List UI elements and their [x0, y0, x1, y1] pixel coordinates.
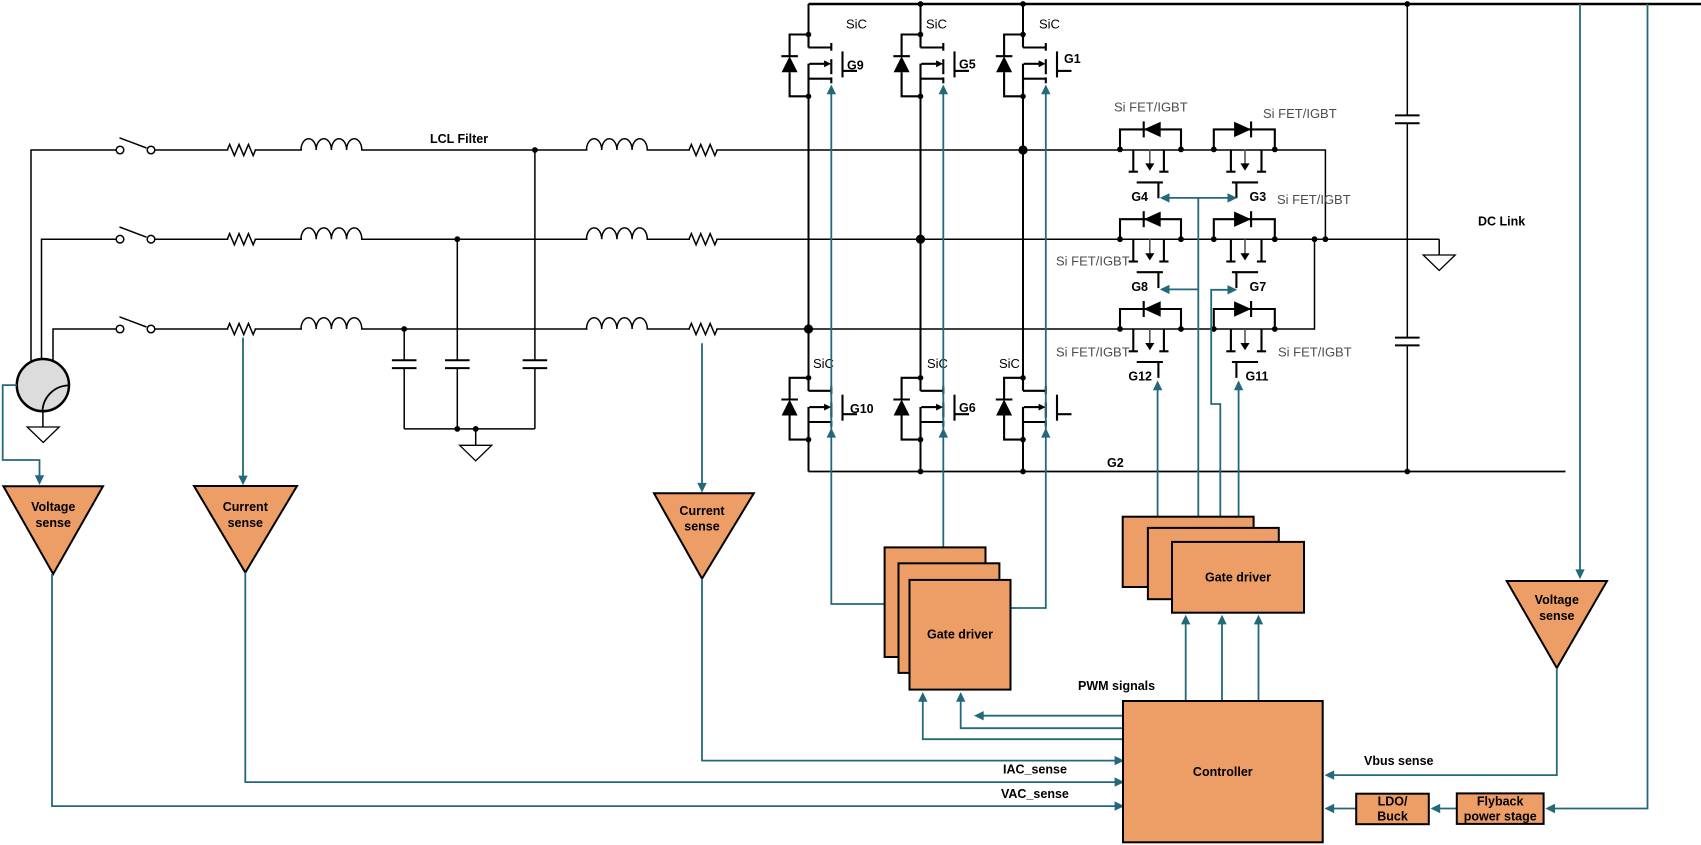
transistor pair Q12 Si FET/IGBT G11 — [1211, 301, 1278, 378]
label Si FET/IGBT row3 right — [1278, 345, 1352, 360]
wire phase B middle — [42, 239, 1440, 360]
node bottom rail junctions — [918, 469, 1411, 475]
wire PWM signals arrow teal — [974, 711, 1123, 720]
svg-text:Voltage: Voltage — [1535, 593, 1579, 607]
label DC Link — [1478, 215, 1525, 229]
svg-text:SiC: SiC — [926, 17, 947, 32]
Controller box — [1123, 701, 1323, 842]
svg-text:G11: G11 — [1246, 370, 1269, 384]
svg-text:Buck: Buck — [1377, 810, 1408, 824]
resistor R3 phase C — [227, 323, 255, 334]
svg-text:DC Link: DC Link — [1478, 215, 1525, 229]
svg-text:LCL Filter: LCL Filter — [430, 132, 488, 146]
transistor Q5 SiC G6 bottom — [893, 375, 969, 442]
triangle Current sense 2 — [654, 493, 754, 578]
label G2 — [1107, 456, 1124, 470]
wire Controller to Gate driver 1 line a teal — [956, 692, 1123, 728]
label G10 — [850, 402, 874, 416]
svg-text:Vbus sense: Vbus sense — [1364, 754, 1434, 768]
wire SiC leg column 3 — [1022, 4, 1024, 472]
label Si FET/IGBT row2 right — [1277, 192, 1351, 207]
label IAC_sense — [1003, 763, 1067, 777]
arrowheads gate nets SiC top row — [827, 85, 1051, 95]
LDO/Buck box — [1356, 794, 1429, 825]
wire LDO to Controller teal — [1325, 804, 1357, 813]
svg-text:Si FET/IGBT: Si FET/IGBT — [1056, 253, 1130, 268]
Flyback power stage box — [1457, 793, 1544, 824]
svg-text:SiC: SiC — [1039, 17, 1060, 32]
svg-text:sense: sense — [684, 520, 719, 534]
label G4 — [1131, 190, 1148, 204]
wire gate net G11 teal — [1234, 381, 1243, 517]
wire phase C bottom — [53, 239, 1315, 362]
wire Controller to Gate driver 2 arrows teal — [1181, 615, 1263, 701]
svg-text:Flyback: Flyback — [1477, 795, 1524, 809]
wire SiC leg column 1 — [808, 4, 810, 472]
label G12 — [1128, 370, 1152, 384]
arrowheads gate nets SiC bottom row — [827, 428, 1051, 438]
transistor pair Q7 Si FET/IGBT G4 — [1117, 121, 1184, 198]
svg-text:Si FET/IGBT: Si FET/IGBT — [1277, 192, 1351, 207]
transistor Q1 SiC G9 top — [781, 32, 857, 99]
label SiC Q2 — [926, 17, 947, 32]
resistor R2 phase B — [227, 234, 255, 245]
triangle Voltage sense 2 — [1507, 581, 1607, 668]
wire SiC leg column 2 — [920, 4, 922, 472]
resistor R5 phase B second stage — [689, 234, 717, 245]
svg-text:G2: G2 — [1107, 456, 1124, 470]
wire sense tap to Current sense 1 teal — [238, 338, 247, 486]
AC grid source G — [17, 359, 70, 411]
capacitor C3 — [523, 360, 548, 368]
label G8 — [1131, 280, 1148, 294]
wire Vbus sense net teal — [1325, 668, 1557, 780]
inductor L3 phase C — [301, 318, 362, 329]
label SiC Q6 — [999, 356, 1020, 371]
label SiC Q3 — [1039, 17, 1060, 32]
label VAC_sense — [1001, 787, 1069, 801]
triangle Current sense 1 — [194, 486, 297, 573]
wire DC+ to Voltage sense 2 teal — [1575, 4, 1584, 579]
svg-text:Current: Current — [223, 500, 269, 514]
ground below source — [27, 411, 59, 443]
svg-text:LDO/: LDO/ — [1378, 795, 1408, 809]
resistor R4 phase A second stage — [689, 144, 717, 155]
label Vbus sense — [1364, 754, 1434, 768]
svg-text:SiC: SiC — [999, 356, 1020, 371]
inductor L6 phase C second stage — [587, 318, 648, 329]
svg-text:SiC: SiC — [846, 17, 867, 32]
node filter cap taps — [401, 147, 537, 432]
wire gate net SiC leg2 teal — [942, 86, 944, 547]
label G9 — [847, 59, 864, 73]
wire Flyback to LDO teal — [1431, 804, 1457, 813]
svg-text:Gate driver: Gate driver — [1205, 571, 1271, 585]
svg-text:Current: Current — [679, 504, 725, 518]
ground DC link midpoint — [1423, 239, 1455, 270]
node phase B / mid-rail junctions — [1312, 236, 1329, 242]
svg-text:sense: sense — [228, 516, 263, 530]
svg-text:Si FET/IGBT: Si FET/IGBT — [1263, 106, 1337, 121]
svg-text:sense: sense — [1539, 609, 1574, 623]
wire filter cap leads and bottom rail — [404, 150, 535, 429]
node top rail junctions — [918, 1, 1411, 7]
switch S2 phase B — [116, 227, 155, 243]
ground filter caps — [460, 429, 492, 461]
svg-text:G12: G12 — [1128, 370, 1152, 384]
transistor pair Q11 Si FET/IGBT G12 — [1117, 301, 1184, 378]
wire gate net SiC leg3 teal — [1011, 86, 1046, 608]
label G5 — [959, 58, 976, 72]
wire gate net G12 teal — [1153, 381, 1162, 517]
wire sense tap to Current sense 2 teal — [697, 343, 706, 492]
svg-text:Gate driver: Gate driver — [927, 628, 993, 642]
transistor Q2 SiC G5 top — [893, 32, 969, 99]
svg-text:Si FET/IGBT: Si FET/IGBT — [1056, 345, 1130, 360]
svg-text:G4: G4 — [1131, 190, 1148, 204]
wire phase A top — [31, 150, 1325, 363]
label Si FET/IGBT row2 left — [1056, 253, 1130, 268]
wire sense tap to Voltage sense 1 teal — [3, 385, 45, 485]
svg-text:Si FET/IGBT: Si FET/IGBT — [1114, 100, 1188, 115]
capacitor C5 DC link bottom — [1395, 338, 1420, 346]
svg-text:sense: sense — [35, 516, 70, 530]
capacitor C4 DC link top — [1395, 115, 1420, 123]
svg-text:G9: G9 — [847, 59, 864, 73]
inductor L1 phase A — [301, 139, 362, 150]
label Si FET/IGBT row1 right — [1263, 106, 1337, 121]
wire IAC_sense net teal — [702, 579, 1124, 766]
transistor Q6 SiC bottom third — [996, 375, 1072, 442]
wire gate net G8 teal — [1160, 285, 1199, 294]
wire DC+ top rail — [809, 3, 1701, 6]
gate driver stack 1 — [885, 547, 1011, 689]
label G1 — [1064, 52, 1081, 66]
svg-text:G7: G7 — [1250, 280, 1267, 294]
svg-text:G6: G6 — [959, 401, 976, 415]
transistor Q4 SiC G10 bottom — [781, 375, 857, 442]
capacitor C1 — [392, 360, 417, 368]
svg-text:PWM signals: PWM signals — [1078, 679, 1155, 693]
transistor pair Q9 Si FET/IGBT G8 — [1117, 211, 1184, 288]
wire gate net G7 teal — [1211, 285, 1237, 517]
svg-text:G10: G10 — [850, 402, 874, 416]
triangle Voltage sense 1 — [3, 486, 103, 574]
svg-text:G8: G8 — [1131, 280, 1148, 294]
svg-text:G1: G1 — [1064, 52, 1081, 66]
gate driver stack 2 — [1123, 517, 1304, 613]
label SiC Q1 — [846, 17, 867, 32]
switch S1 phase A — [116, 138, 155, 154]
svg-text:power stage: power stage — [1464, 810, 1537, 824]
capacitor C2 — [445, 360, 470, 368]
wire VAC_sense net teal — [52, 574, 1124, 811]
label Si FET/IGBT row3 left — [1056, 345, 1130, 360]
label G6 — [959, 401, 976, 415]
label SiC Q5 — [927, 356, 948, 371]
label Si FET/IGBT row1 left — [1114, 100, 1188, 115]
svg-text:VAC_sense: VAC_sense — [1001, 787, 1069, 801]
node phase to leg big junctions — [804, 145, 1028, 333]
svg-text:IAC_sense: IAC_sense — [1003, 763, 1067, 777]
resistor R6 phase C second stage — [689, 323, 717, 334]
resistor R1 phase A — [227, 144, 255, 155]
wire DC- bottom rail — [809, 471, 1566, 473]
svg-text:Controller: Controller — [1193, 765, 1253, 779]
svg-text:G5: G5 — [959, 58, 976, 72]
wire Controller to Gate driver 1 line b teal — [918, 692, 1123, 739]
transistor pair Q10 Si FET/IGBT G7 — [1211, 211, 1278, 288]
wire gate net SiC leg1 teal — [831, 86, 884, 604]
label LCL Filter — [430, 132, 488, 146]
svg-text:G3: G3 — [1250, 190, 1267, 204]
label G3 — [1250, 190, 1267, 204]
svg-text:SiC: SiC — [927, 356, 948, 371]
svg-text:Si FET/IGBT: Si FET/IGBT — [1278, 345, 1352, 360]
wire gate net G4 G3 teal double arrow — [1160, 193, 1237, 517]
wire DC link capacitor column — [1406, 4, 1408, 472]
label G7 — [1250, 280, 1267, 294]
switch S3 phase C — [116, 317, 155, 333]
label G11 — [1246, 370, 1269, 384]
inductor L5 phase B second stage — [587, 228, 648, 239]
svg-text:Voltage: Voltage — [31, 500, 75, 514]
label SiC Q4 — [813, 356, 834, 371]
transistor pair Q8 Si FET/IGBT G3 — [1211, 121, 1278, 198]
inductor L2 phase B — [301, 228, 362, 239]
wire Current sense 1 output teal — [245, 573, 1124, 787]
label PWM signals — [1078, 679, 1155, 693]
wire DC+ to Flyback teal — [1545, 4, 1647, 813]
inductor L4 phase A second stage — [587, 139, 648, 150]
transistor Q3 SiC G1 top — [996, 32, 1072, 99]
